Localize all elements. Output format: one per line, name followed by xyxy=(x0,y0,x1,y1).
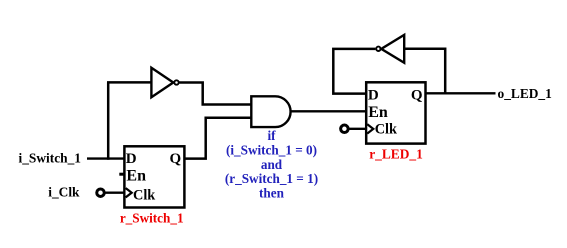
svg-text:i_Clk: i_Clk xyxy=(48,185,80,200)
clock edge triangle of r_LED_1 xyxy=(367,124,373,133)
svg-text:En: En xyxy=(368,104,388,121)
wire inverter U1 input segment xyxy=(107,81,152,84)
wire i_Clk to Clk of r_Switch_1 xyxy=(106,191,126,193)
wire branch node up to inverter U1 input xyxy=(107,82,110,159)
i_Clk connection ring (right) xyxy=(341,125,349,133)
svg-text:r_Switch_1: r_Switch_1 xyxy=(120,211,184,226)
inverter U1 triangle xyxy=(151,68,173,97)
register r_Switch_1 box xyxy=(124,146,184,207)
wire i_Switch_1 to D input of r_Switch_1 xyxy=(87,157,126,159)
svg-text:o_LED_1: o_LED_1 xyxy=(498,86,552,101)
i_Clk connection ring (left) xyxy=(97,189,105,197)
svg-text:Clk: Clk xyxy=(133,187,155,203)
clock edge triangle of r_Switch_1 xyxy=(126,188,132,197)
wire i_Clk ring to Clk of r_LED_1 xyxy=(349,128,367,130)
inverter U2 triangle (points left) xyxy=(381,35,404,63)
svg-text:r_LED_1: r_LED_1 xyxy=(369,147,423,162)
svg-text:and: and xyxy=(261,157,283,172)
wire inverter U1 output to AND gate top input xyxy=(179,83,252,105)
svg-text:Q: Q xyxy=(170,151,182,167)
register r_LED_1 box xyxy=(366,82,425,143)
svg-text:if: if xyxy=(267,128,276,143)
wire AND gate G1 output to En of r_LED_1 xyxy=(290,110,367,112)
svg-text:(r_Switch_1 = 1): (r_Switch_1 = 1) xyxy=(225,171,318,186)
svg-text:then: then xyxy=(259,186,285,201)
svg-text:D: D xyxy=(126,151,137,167)
svg-text:Q: Q xyxy=(411,88,423,104)
wire inverter U2 input from Q feedback xyxy=(404,49,445,94)
blue condition text block xyxy=(225,128,318,201)
svg-text:D: D xyxy=(368,88,379,104)
AND gate G1 body xyxy=(251,96,290,127)
svg-text:Clk: Clk xyxy=(375,122,397,138)
wire r_LED_1 Q output to o_LED_1 xyxy=(425,92,496,94)
En constant stub dash on r_Switch_1 xyxy=(119,173,123,176)
wire inverter U2 output to D of r_LED_1 xyxy=(333,49,375,94)
wire r_Switch_1 Q output to AND gate bottom input xyxy=(183,118,252,159)
inverter U1 output bubble xyxy=(174,80,178,84)
svg-text:i_Switch_1: i_Switch_1 xyxy=(19,151,82,166)
svg-text:(i_Switch_1 = 0): (i_Switch_1 = 0) xyxy=(226,142,317,157)
svg-text:En: En xyxy=(126,168,146,185)
inverter U2 output bubble xyxy=(376,47,380,51)
